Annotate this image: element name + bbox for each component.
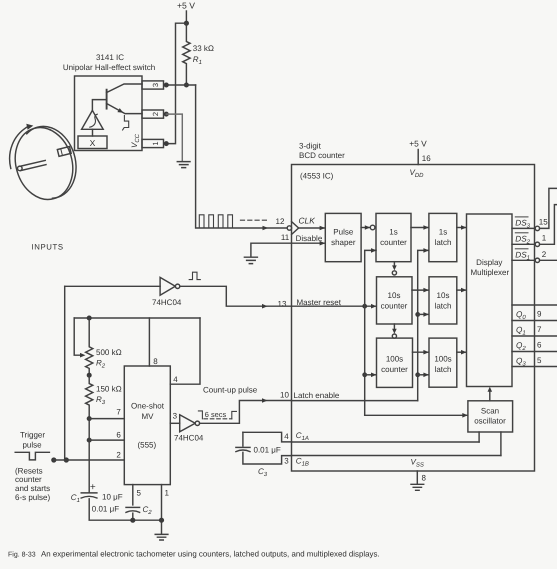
1s latch box — [429, 213, 457, 261]
svg-text:6 secs: 6 secs — [205, 410, 227, 419]
svg-text:counter: counter — [381, 301, 408, 310]
wire 100s latch to display multiplexer — [457, 351, 466, 353]
svg-text:Unipolar Hall-effect switch: Unipolar Hall-effect switch — [63, 63, 155, 72]
svg-text:BCD counter: BCD counter — [299, 151, 345, 160]
wire +5V to pin 16 — [417, 150, 419, 165]
wire 1s counter overflow to 10s counter with bubble — [393, 262, 395, 266]
wire latch enable vertical distribution — [418, 250, 428, 400]
label Q3 and pin 5 — [516, 356, 542, 368]
100s counter box — [377, 338, 413, 387]
svg-text:8: 8 — [153, 357, 158, 366]
curl mark inside amplifier — [90, 114, 98, 127]
terminal dot trigger input — [51, 457, 56, 462]
svg-text:74HC04: 74HC04 — [174, 434, 204, 443]
svg-text:1s: 1s — [389, 228, 397, 237]
svg-text:+5 V: +5 V — [409, 138, 427, 148]
svg-text:+: + — [90, 482, 96, 493]
pin 13 label — [278, 300, 287, 309]
wire pulse shaper to 1s counter with arrowhead and bubble — [361, 227, 369, 229]
junction dot +5V node — [184, 21, 189, 26]
wire amplifier apex to transistor base — [92, 100, 106, 111]
svg-text:2: 2 — [151, 112, 160, 116]
svg-text:5: 5 — [137, 489, 142, 498]
555 one-shot box — [124, 366, 170, 485]
wire Q2 output — [512, 351, 557, 353]
svg-text:latch: latch — [435, 365, 452, 374]
wire Hall pin 2 to ground — [166, 114, 182, 161]
wire Q3 output — [512, 366, 557, 368]
svg-text:Scan: Scan — [481, 406, 499, 415]
scan oscillator box — [468, 401, 513, 432]
wire master reset rail into counters — [292, 305, 377, 307]
svg-text:oscillator: oscillator — [474, 417, 506, 426]
label INPUTS — [32, 243, 64, 252]
pin 4 label — [284, 432, 289, 441]
wire 555 pin 1 to ground — [161, 485, 163, 534]
wire Disable from ground to pin 11 and into pulse shaper — [251, 243, 325, 256]
svg-text:6: 6 — [116, 431, 121, 440]
ground symbol at Disable — [244, 257, 257, 263]
svg-text:100s: 100s — [434, 355, 451, 364]
svg-text:2: 2 — [116, 450, 121, 459]
capacitor C3 plates — [236, 446, 250, 448]
junction dot pin 6 node — [87, 438, 92, 443]
svg-text:7: 7 — [116, 408, 121, 417]
capacitor C2 0.01 uF — [126, 506, 140, 508]
junction dot pin 7 node — [87, 416, 92, 421]
wire +5V down to junction — [185, 11, 187, 21]
label (4553 IC) — [300, 172, 334, 181]
svg-text:Multiplexer: Multiplexer — [470, 268, 509, 277]
wire trigger to 555 pin 2 — [54, 459, 125, 461]
svg-text:3141 IC: 3141 IC — [96, 53, 124, 62]
resistor R1 33 kOhm — [183, 23, 190, 85]
label C3 — [258, 467, 268, 478]
4553 IC outer box — [292, 165, 535, 472]
pin 12 label — [276, 217, 285, 226]
svg-text:Latch enable: Latch enable — [294, 391, 340, 400]
resistor R3 150 kOhm — [86, 375, 93, 418]
wire 1s counter to 1s latch — [411, 227, 428, 229]
svg-text:MV: MV — [142, 412, 155, 421]
wire to 555 pin 7 — [89, 418, 124, 420]
svg-text:4: 4 — [284, 432, 289, 441]
wire inverter U2 output to pin 13 master reset — [180, 286, 292, 306]
junction dot master reset at 100s counter — [362, 372, 367, 377]
wire Q0 output — [512, 320, 557, 322]
svg-text:(4553 IC): (4553 IC) — [300, 172, 334, 181]
svg-text:1: 1 — [542, 234, 547, 243]
label C1B — [296, 456, 309, 467]
inverter U2 74HC04 (master reset) input wire — [65, 285, 160, 287]
svg-text:Trigger: Trigger — [20, 431, 45, 440]
label DS1 with overbar — [515, 250, 530, 261]
wire to 555 pin 6 — [89, 419, 124, 441]
label Q2 and pin 6 — [516, 340, 542, 352]
rotation arrow around disk — [10, 127, 28, 169]
svg-text:11: 11 — [281, 233, 290, 242]
svg-text:74HC04: 74HC04 — [152, 298, 182, 307]
svg-text:3: 3 — [151, 83, 160, 87]
svg-text:100s: 100s — [386, 355, 403, 364]
capacitor C1 10 uF electrolytic — [81, 492, 97, 494]
label Q0 and pin 9 — [516, 309, 542, 321]
label Latch enable — [294, 391, 340, 400]
label (Resets counter and starts 6-s pulse) — [15, 466, 50, 501]
wire VSS pin 8 to ground — [416, 471, 418, 484]
junction dot latch enable at 10s latch — [415, 312, 420, 317]
wire 10s counter overflow to 100s counter with bubble — [393, 324, 395, 329]
svg-text:counter: counter — [380, 238, 407, 247]
svg-text:0.01 μF: 0.01 μF — [92, 505, 119, 514]
junction dot R2 top — [87, 316, 92, 321]
svg-text:Disable: Disable — [296, 234, 323, 243]
label C1A — [296, 431, 309, 442]
wire master reset branch into 100s counter — [365, 374, 376, 376]
svg-text:An experimental electronic tac: An experimental electronic tachometer us… — [41, 550, 380, 559]
label Count-up pulse — [203, 386, 258, 395]
wire latch enable branch into 100s latch — [418, 374, 428, 376]
disk rim second edge (arc) — [27, 126, 76, 198]
wire inverter U3 output to pin 10 latch enable — [200, 401, 292, 424]
svg-text:X: X — [90, 138, 96, 148]
wire 100s counter to 100s latch — [413, 351, 429, 353]
Vcc label rotated inside Hall IC — [130, 133, 141, 148]
transistor Q1 emitter to pin 2 with arrowhead — [107, 104, 142, 114]
label Disable — [296, 234, 323, 243]
potentiometer R2 wiper arrow — [74, 318, 80, 355]
svg-text:33 kΩ: 33 kΩ — [193, 44, 214, 53]
ground symbol 555 — [155, 534, 168, 540]
label VSS — [411, 457, 424, 468]
svg-text:INPUTS: INPUTS — [32, 243, 64, 252]
wire X box to amplifier — [92, 129, 94, 136]
wire 555 pin 4 to top rail — [170, 318, 200, 384]
pin 10 label — [280, 390, 289, 399]
svg-text:6-s pulse): 6-s pulse) — [15, 493, 50, 502]
clock triangle symbol at 4553 edge — [292, 222, 299, 235]
display multiplexer box — [467, 214, 513, 387]
svg-text:Fig. 8-33: Fig. 8-33 — [8, 551, 36, 559]
1s counter box — [376, 213, 411, 261]
svg-text:and starts: and starts — [15, 484, 50, 493]
pin 3 label — [284, 457, 289, 466]
wire scan oscillator to multiplexer (arrow up) — [489, 391, 491, 401]
junction dot R1 to Hall pin3 output node — [184, 83, 189, 88]
label DS3 with overbar — [515, 219, 530, 230]
svg-text:1: 1 — [151, 141, 160, 145]
svg-text:Display: Display — [476, 258, 502, 267]
waveform square pulses on CLK line — [199, 215, 232, 228]
svg-text:12: 12 — [276, 217, 285, 226]
junction dot latch enable at 100s latch — [415, 372, 420, 377]
label DS2 with overbar — [515, 234, 530, 245]
10s latch box — [429, 277, 457, 324]
wire CLK feed vertical and horizontal into pin 12 — [196, 85, 288, 228]
label CLK — [299, 215, 316, 225]
wire left vertical from trigger to inverter U2 — [64, 286, 66, 460]
10s counter box — [377, 277, 413, 324]
svg-text:pulse: pulse — [22, 440, 42, 449]
svg-text:One-shot: One-shot — [131, 402, 165, 411]
svg-text:3: 3 — [173, 412, 178, 421]
svg-text:5: 5 — [537, 356, 542, 365]
svg-text:500 kΩ: 500 kΩ — [96, 348, 122, 357]
svg-text:3: 3 — [284, 457, 289, 466]
svg-text:6: 6 — [537, 340, 542, 349]
pin 11 label — [281, 233, 290, 242]
svg-text:(555): (555) — [137, 440, 156, 449]
wire Q1 output — [512, 335, 557, 337]
capacitor C3 left wire lower and bottom wire to pin 3 — [243, 452, 292, 464]
label Master reset — [297, 298, 342, 307]
wire pin6 node down to capacitor C1 — [88, 440, 90, 492]
node +5V supply label (top left) — [177, 1, 195, 11]
figure caption — [8, 550, 380, 559]
wire scan oscillator to C1B line — [500, 432, 502, 456]
label 3-digit BCD counter — [299, 141, 345, 160]
svg-text:10s: 10s — [388, 291, 401, 300]
svg-text:2: 2 — [542, 250, 547, 259]
wire 555 pin 3 to inverter U3 — [170, 422, 179, 424]
svg-text:7: 7 — [537, 325, 542, 334]
wire C1 bottom to ground rail — [89, 499, 161, 520]
svg-text:(Resets: (Resets — [15, 466, 43, 475]
wire DS3 output — [512, 227, 535, 229]
svg-text:13: 13 — [278, 300, 287, 309]
svg-text:1s: 1s — [439, 228, 447, 237]
dashes after waveform — [241, 219, 267, 221]
svg-text:150 kΩ: 150 kΩ — [96, 385, 122, 394]
svg-text:shaper: shaper — [331, 238, 356, 247]
wire one-shot top rail — [74, 317, 200, 319]
inverter U2 output bubble — [175, 284, 179, 288]
bubble at CLK input — [287, 226, 291, 230]
svg-text:0.01 μF: 0.01 μF — [254, 446, 281, 455]
wire scan oscillator to C1A line — [478, 432, 480, 442]
zener clamp below emitter — [123, 116, 129, 131]
disk axle rod — [20, 160, 46, 170]
Hall pin 1 stub — [142, 139, 164, 147]
amplifier triangle inside Hall IC — [82, 110, 104, 129]
svg-text:9: 9 — [537, 309, 542, 318]
pulse glyph above inverter U2 output — [189, 272, 200, 279]
Hall pin 2 stub — [142, 110, 164, 118]
svg-text:16: 16 — [422, 154, 431, 163]
wire latch enable branch into 10s latch — [418, 313, 428, 315]
wire Q output row line 0 — [512, 304, 557, 306]
svg-text:Pulse: Pulse — [333, 228, 354, 237]
svg-text:latch: latch — [435, 238, 452, 247]
svg-text:counter: counter — [381, 365, 408, 374]
svg-text:4: 4 — [173, 375, 178, 384]
junction dot C2 rail — [130, 518, 135, 523]
label VDD — [410, 168, 425, 179]
wire master reset vertical distribution — [365, 250, 376, 415]
transistor Q1 collector to pin 3 — [107, 84, 142, 93]
wire 10s counter to 10s latch — [412, 289, 428, 291]
svg-text:CLK: CLK — [299, 215, 316, 225]
wire to scan oscillator input — [365, 414, 468, 416]
svg-text:1: 1 — [165, 489, 170, 498]
svg-text:10s: 10s — [437, 291, 450, 300]
svg-text:10: 10 — [280, 390, 289, 399]
label Trigger pulse — [20, 431, 45, 450]
wire C1B internal line (pin 3) — [292, 455, 501, 457]
svg-text:Master reset: Master reset — [297, 298, 342, 307]
label 74HC04 (U3) — [174, 434, 204, 443]
Hall pin 3 stub — [142, 81, 164, 89]
wire Hall pin3 to CLK feed corner — [167, 84, 196, 86]
100s latch box — [429, 338, 457, 387]
wire C2 bottom to rail — [132, 513, 134, 520]
svg-text:3-digit: 3-digit — [299, 141, 322, 150]
inverter U3 74HC04 triangle — [180, 415, 196, 432]
Hall element X box — [78, 136, 107, 149]
Hall-effect switch 3141 IC labels — [63, 53, 155, 72]
wire latch enable rail — [292, 400, 418, 402]
wire 555 pin 5 down to C2 — [132, 485, 134, 505]
node +5V at VDD pin 16 — [409, 138, 427, 148]
wire 555 pin 8 to top rail — [148, 318, 150, 366]
junction dot trigger node — [64, 457, 69, 462]
wire DS2 output — [512, 243, 535, 245]
transistor Q1 base bar — [106, 90, 108, 109]
resistor R2 500 kOhm — [86, 318, 93, 375]
junction dot master reset at 10s counter — [362, 304, 367, 309]
capacitor C3 loop top wire to pin 4 — [243, 432, 292, 442]
svg-text:10 μF: 10 μF — [102, 492, 123, 501]
svg-text:+5 V: +5 V — [177, 1, 195, 11]
svg-text:Count-up pulse: Count-up pulse — [203, 386, 258, 395]
6 secs pulse glyph — [198, 411, 236, 419]
wire CLK to pulse shaper with arrowhead — [299, 227, 325, 229]
arrowhead CLK line — [263, 226, 269, 231]
svg-text:counter: counter — [15, 475, 42, 484]
inverter U3 output bubble — [195, 421, 199, 425]
junction dot R2-R3 — [87, 373, 92, 378]
ground symbol VSS — [411, 484, 424, 490]
pulse shaper box — [325, 213, 361, 261]
junction dot pin 1 rail — [159, 518, 164, 523]
svg-text:latch: latch — [435, 301, 452, 310]
label 74HC04 (U2) — [152, 298, 182, 307]
rotating disk (ellipse) — [7, 121, 81, 207]
Hall IC 3141 body — [75, 76, 143, 151]
svg-text:15: 15 — [539, 218, 548, 227]
inverter U2 triangle — [160, 277, 175, 295]
magnet on disk rim — [57, 147, 71, 157]
wire +5V branch to Hall pin 1 (Vcc) — [168, 23, 186, 143]
capacitor C3 left wire upper — [242, 432, 244, 446]
label Q1 and pin 7 — [516, 325, 542, 337]
label 0.01 uF (C3) — [254, 446, 281, 455]
ground symbol below Hall pin 2 — [177, 162, 190, 168]
svg-text:8: 8 — [422, 474, 427, 483]
wire 10s latch to display multiplexer — [457, 289, 466, 291]
wire 1s latch to display multiplexer — [457, 227, 466, 229]
wire DS1 output — [512, 259, 535, 261]
trigger pulse waveform symbol — [15, 452, 49, 460]
wire C1A internal line (pin 4) — [292, 441, 480, 443]
